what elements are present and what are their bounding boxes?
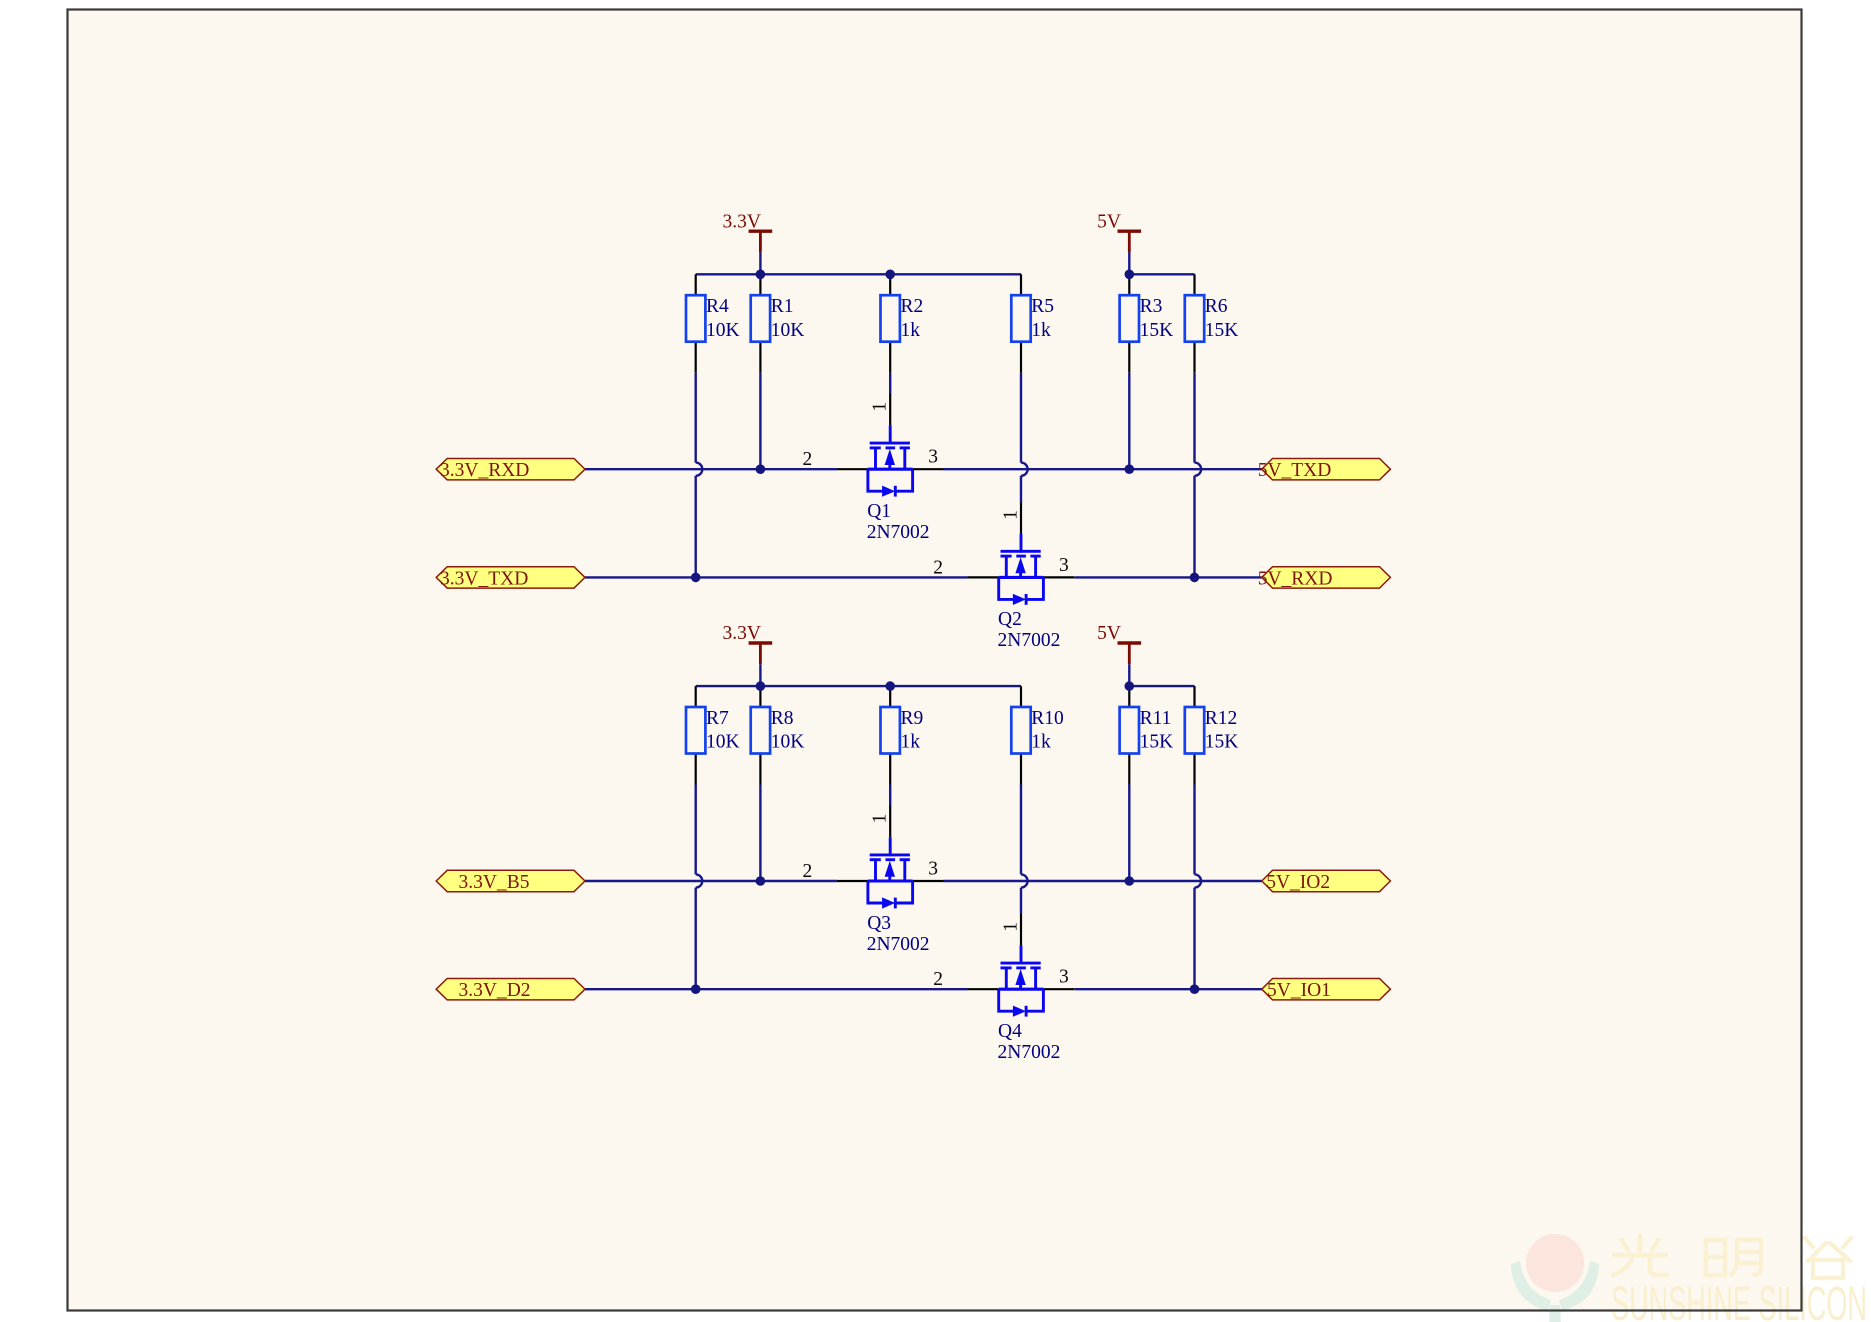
svg-text:2: 2 [802, 861, 812, 882]
resistor R10 1k [1011, 686, 1064, 784]
svg-text:R9: R9 [901, 708, 924, 729]
junction 3.3V rail / R9 bottom block [885, 681, 895, 691]
resistor R12 15K [1185, 686, 1239, 784]
wire 5V rail top block [1129, 273, 1194, 275]
wire 5V top block power stem [1128, 252, 1130, 274]
transistor Q3 2N7002 [837, 806, 944, 909]
svg-text:SUNSHINE SILICON: SUNSHINE SILICON [1611, 1278, 1867, 1322]
wire R8 to line1 bottom block [759, 785, 761, 882]
transistor Q2 2N7002 [968, 502, 1075, 605]
wire R6 to line2 top block [1193, 373, 1195, 578]
port 5V_IO2 [1262, 870, 1391, 891]
wire R9 to Q3 gate bottom block [889, 785, 891, 807]
port 3.3V_D2 [436, 979, 585, 1000]
wire line2 left top block [585, 576, 968, 578]
wire R7 to line2 bottom block [695, 785, 697, 990]
svg-text:3: 3 [1059, 967, 1069, 988]
wire R4 to line2 top block [695, 373, 697, 578]
port 5V_RXD [1262, 567, 1391, 588]
wire line1 right bottom block [944, 880, 1262, 882]
svg-text:2: 2 [933, 557, 943, 578]
svg-text:10K: 10K [706, 732, 740, 753]
svg-text:3: 3 [928, 447, 938, 468]
resistor R1 10K [751, 274, 805, 372]
resistor R7 10K [686, 686, 740, 784]
junction R12 / line2 bottom block [1190, 984, 1200, 994]
svg-text:15K: 15K [1140, 732, 1174, 753]
wire R3 to line1 top block [1128, 373, 1130, 470]
junction R11 / line1 bottom block [1125, 876, 1135, 886]
svg-text:10K: 10K [771, 320, 805, 341]
logo text 光 [1613, 1236, 1667, 1275]
junction R1 / line1 top block [756, 464, 766, 474]
svg-text:R7: R7 [706, 708, 729, 729]
wire hop at x=1194.5 bottom block [1195, 874, 1202, 887]
logo text 明 [1706, 1240, 1761, 1275]
svg-text:10K: 10K [771, 732, 805, 753]
junction R6 / line2 top block [1190, 573, 1200, 583]
wire R2 to Q1 gate top block [889, 373, 891, 395]
svg-text:2N7002: 2N7002 [998, 1042, 1061, 1063]
port 3.3V_B5 [436, 870, 585, 891]
wire line1 left top block [585, 468, 837, 470]
port 5V_TXD [1262, 459, 1391, 480]
wire R12 to line2 bottom block [1193, 785, 1195, 990]
port 5V_IO1 [1262, 979, 1391, 1000]
wire line2 left bottom block [585, 988, 968, 990]
wire R11 to line1 bottom block [1128, 785, 1130, 882]
transistor Q4 2N7002 [968, 914, 1075, 1017]
logo sun circle [1526, 1234, 1584, 1292]
svg-text:R11: R11 [1140, 708, 1172, 729]
svg-text:3.3V_D2: 3.3V_D2 [459, 980, 531, 1001]
svg-text:R10: R10 [1031, 708, 1064, 729]
junction R4 / line2 top block [691, 573, 701, 583]
junction R3 / line1 top block [1125, 464, 1135, 474]
svg-text:15K: 15K [1205, 320, 1239, 341]
svg-text:3: 3 [928, 859, 938, 880]
svg-text:2N7002: 2N7002 [867, 522, 930, 543]
wire R1 to line1 top block [759, 373, 761, 470]
svg-text:5V_IO2: 5V_IO2 [1266, 872, 1330, 893]
wire line1 left bottom block [585, 880, 837, 882]
wire hop at x=695.7 top block [696, 463, 703, 476]
wire 3.3V top block power stem [759, 252, 761, 274]
wire line2 right top block [1075, 576, 1262, 578]
svg-text:1k: 1k [901, 320, 921, 341]
svg-text:5V_IO1: 5V_IO1 [1267, 980, 1331, 1001]
junction R8 / line1 bottom block [756, 876, 766, 886]
svg-text:3.3V_TXD: 3.3V_TXD [440, 568, 528, 589]
svg-text:R4: R4 [706, 296, 729, 317]
junction 5V rail / R3 top block [1125, 270, 1135, 280]
resistor R2 1k [881, 274, 924, 372]
resistor R3 15K [1120, 274, 1174, 372]
junction 3.3V rail / R2 top block [885, 270, 895, 280]
wire 5V rail bottom block [1129, 685, 1194, 687]
svg-text:10K: 10K [706, 320, 740, 341]
wire hop at x=1021 top block [1021, 463, 1028, 476]
svg-text:Q2: Q2 [998, 609, 1022, 630]
svg-text:2N7002: 2N7002 [998, 630, 1061, 651]
junction 5V rail / R11 bottom block [1125, 681, 1135, 691]
resistor R8 10K [751, 686, 805, 784]
wire R10 to Q4 gate bottom block [1020, 785, 1022, 915]
port 3.3V_RXD [436, 459, 585, 480]
logo text 谷 [1805, 1238, 1851, 1278]
svg-text:R2: R2 [901, 296, 924, 317]
resistor R5 1k [1011, 274, 1054, 372]
svg-text:1: 1 [870, 402, 891, 412]
svg-text:1: 1 [1001, 922, 1022, 932]
svg-text:3.3V_RXD: 3.3V_RXD [440, 460, 529, 481]
resistor R11 15K [1120, 686, 1174, 784]
svg-text:1k: 1k [1031, 320, 1051, 341]
svg-text:3.3V_B5: 3.3V_B5 [459, 872, 530, 893]
wire hop at x=1194.5 top block [1195, 463, 1202, 476]
svg-text:2: 2 [933, 969, 943, 990]
svg-text:R6: R6 [1205, 296, 1228, 317]
logo leaf Y [1511, 1261, 1599, 1322]
transistor Q1 2N7002 [837, 394, 944, 497]
wire 3.3V rail bottom block [696, 685, 1021, 687]
svg-text:1k: 1k [1031, 732, 1051, 753]
svg-text:R8: R8 [771, 708, 794, 729]
svg-text:Q1: Q1 [867, 501, 891, 522]
wire line1 right top block [944, 468, 1262, 470]
svg-text:R5: R5 [1031, 296, 1054, 317]
wire R5 to Q2 gate top block [1020, 373, 1022, 503]
wire 3.3V bottom block power stem [759, 664, 761, 686]
resistor R4 10K [686, 274, 740, 372]
svg-text:5V: 5V [1097, 211, 1121, 232]
svg-text:2: 2 [802, 449, 812, 470]
wire line2 right bottom block [1075, 988, 1262, 990]
junction 3.3V rail / R8 bottom block [756, 681, 766, 691]
junction R7 / line2 bottom block [691, 984, 701, 994]
svg-text:R3: R3 [1140, 296, 1163, 317]
svg-text:Q3: Q3 [867, 913, 891, 934]
wire 5V bottom block power stem [1128, 664, 1130, 686]
svg-text:15K: 15K [1140, 320, 1174, 341]
svg-text:1: 1 [870, 814, 891, 824]
port 3.3V_TXD [436, 567, 585, 588]
svg-text:1k: 1k [901, 732, 921, 753]
svg-text:R12: R12 [1205, 708, 1238, 729]
wire hop at x=695.7 bottom block [696, 874, 703, 887]
wire 3.3V rail top block [696, 273, 1021, 275]
svg-text:5V_TXD: 5V_TXD [1258, 460, 1332, 481]
svg-text:2N7002: 2N7002 [867, 934, 930, 955]
resistor R9 1k [881, 686, 924, 784]
svg-text:R1: R1 [771, 296, 794, 317]
wire hop at x=1021 bottom block [1021, 874, 1028, 887]
svg-text:3.3V: 3.3V [723, 623, 761, 644]
svg-text:15K: 15K [1205, 732, 1239, 753]
svg-text:3: 3 [1059, 555, 1069, 576]
resistor R6 15K [1185, 274, 1239, 372]
svg-text:Q4: Q4 [998, 1021, 1022, 1042]
svg-text:1: 1 [1001, 510, 1022, 520]
svg-text:5V: 5V [1097, 623, 1121, 644]
svg-text:5V_RXD: 5V_RXD [1258, 568, 1333, 589]
junction 3.3V rail / R1 top block [756, 270, 766, 280]
svg-text:3.3V: 3.3V [723, 211, 761, 232]
